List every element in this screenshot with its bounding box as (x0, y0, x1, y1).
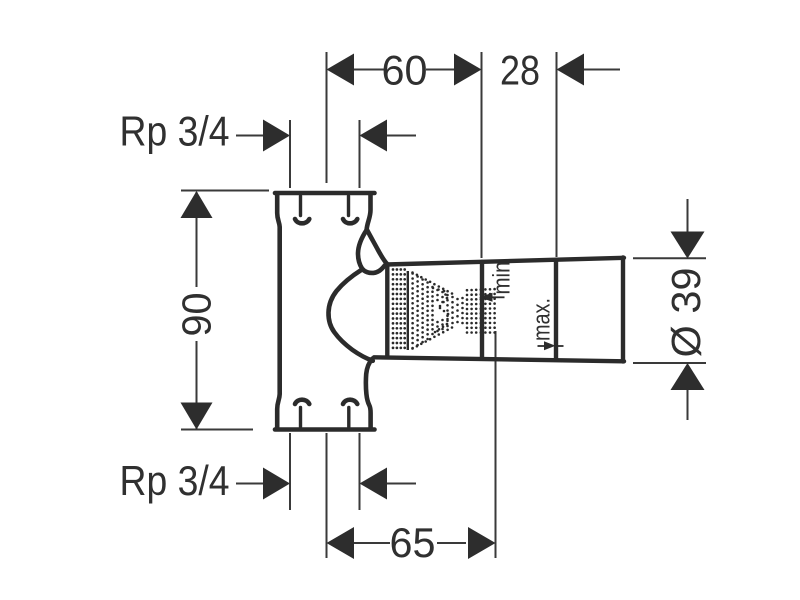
svg-text:60: 60 (382, 47, 428, 94)
svg-text:Rp 3/4: Rp 3/4 (120, 457, 230, 504)
svg-text:90: 90 (174, 293, 220, 337)
svg-text:65: 65 (390, 519, 436, 566)
svg-text:max.: max. (529, 298, 556, 341)
svg-text:Ø 39: Ø 39 (663, 268, 709, 358)
svg-text:min: min (489, 262, 516, 295)
svg-text:Rp 3/4: Rp 3/4 (120, 108, 230, 155)
svg-text:28: 28 (500, 47, 540, 94)
